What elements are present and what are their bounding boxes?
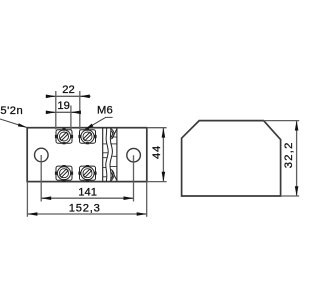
screw terminal 3 bottom-left: [55, 165, 73, 182]
side view outline: [182, 121, 281, 196]
dimension line 19: [46, 111, 81, 115]
screw terminal 2 top-right: [78, 128, 96, 144]
resistive element serpentine band: [106, 128, 113, 182]
dimension line 32,2: [295, 121, 299, 196]
extension lines for 44: [147, 128, 167, 182]
svg-text:5'2n: 5'2n: [0, 105, 23, 117]
svg-text:141: 141: [78, 187, 97, 199]
extension line below hole right: [133, 155, 135, 201]
svg-text:19: 19: [57, 100, 69, 112]
svg-text:22: 22: [62, 84, 74, 96]
mounting hole right: [127, 148, 141, 162]
resistive element fan bottom: [111, 169, 117, 181]
svg-text:152,3: 152,3: [69, 202, 101, 214]
dimension line 44: [162, 128, 166, 182]
screw terminal 1 top-left: [55, 128, 73, 144]
extension line below hole left: [40, 155, 42, 202]
dimension line 141: [41, 196, 133, 200]
dimension line 22: [46, 95, 91, 99]
resistive element rungs: [103, 137, 117, 177]
resistive element fan top: [111, 129, 117, 140]
dimension line 152,3: [27, 212, 146, 216]
extension lines for 22 and 19: [56, 91, 80, 130]
label 5'2n with leader: [0, 105, 27, 128]
label M6 with leader: [85, 105, 113, 130]
front view body outline: [27, 128, 147, 182]
svg-text:M6: M6: [97, 105, 113, 117]
screw terminal 4 bottom-right: [78, 165, 96, 182]
resistive element strip borders: [103, 128, 117, 182]
extension lines for 152,3: [27, 182, 146, 217]
mounting hole left: [35, 148, 49, 162]
extension lines for 32,2: [264, 121, 300, 196]
svg-text:44: 44: [151, 145, 163, 159]
svg-text:32,2: 32,2: [283, 141, 295, 168]
